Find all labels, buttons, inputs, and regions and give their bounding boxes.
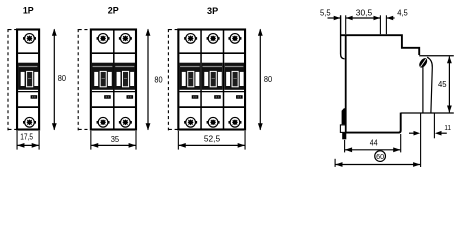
height dimension 80 for 1P [52,29,57,131]
terminal screw top 2P-1 [97,34,110,44]
svg-text:80: 80 [154,75,162,85]
terminal screw top 2P-2 [119,34,132,44]
width dimension 35 for 2P [91,131,136,150]
dimension 4.5 [387,16,395,21]
DIN rail clip lower tab [342,133,346,140]
toggle switch block pole 2P-2 [115,63,135,90]
terminal screw bottom 3P-3 [228,117,241,127]
terminal screw bottom 1P-1 [23,117,36,127]
terminal screw top 1P-1 [23,34,36,44]
indicator window pole 2P-2 [126,95,133,99]
dimension 5.5 (clip standoff) [328,16,341,21]
dashed adjacent module outline left of 2P [78,29,90,130]
DIN rail clip body [342,108,346,124]
indicator window pole 3P-1 [192,95,199,99]
dimension 11 [409,131,447,136]
side view inner front face line [422,67,424,114]
dashed adjacent module outline left of 1P [8,29,16,130]
side view bottom front step line (45 extension) [401,112,454,114]
terminal screw bottom 3P-1 [184,117,197,127]
terminal screw bottom 2P-1 [97,117,110,127]
dimension (60) overall depth [335,159,420,167]
width dimension 52,5 for 3P [178,131,245,150]
svg-text:52,5: 52,5 [204,134,221,144]
svg-text:80: 80 [58,73,66,83]
DIN rail clip pull tab [340,125,345,132]
svg-text:60: 60 [376,152,384,161]
3P pole divider line 2 [223,31,225,129]
dimension label (60) in circle [375,151,386,162]
dimension 30.5 [346,16,380,21]
extension lines for top dimensions [346,15,387,34]
2P breaker front view body [91,30,136,130]
svg-text:3P: 3P [207,5,218,16]
svg-text:1P: 1P [23,5,34,16]
svg-text:4,5: 4,5 [397,8,408,18]
1P breaker front view body [17,30,39,130]
terminal screw bottom 3P-2 [207,117,220,127]
svg-text:45: 45 [438,79,447,89]
extension line for 11/60 dimensions (front face) [420,113,422,167]
svg-text:11: 11 [444,123,451,132]
toggle handle (side view) [418,57,429,69]
side view outer front face curve [427,57,432,113]
terminal screw top 3P-1 [184,34,197,44]
3P breaker front view body [178,30,245,130]
svg-text:17,5: 17,5 [20,131,33,141]
indicator window pole 2P-1 [104,95,111,99]
svg-text:30,5: 30,5 [356,8,373,18]
svg-text:44: 44 [370,138,378,148]
indicator window pole 3P-3 [236,95,243,99]
svg-text:5,5: 5,5 [320,8,331,18]
svg-text:35: 35 [111,134,120,144]
dimension 45 (front height) [447,56,452,113]
DIN rail clip leg [341,15,345,59]
indicator window pole 3P-2 [214,95,221,99]
2P pole divider line 1 [113,31,115,129]
dimension 44 (body depth) [345,134,401,152]
dashed adjacent module outline left of 3P [168,29,177,130]
height dimension 80 for 2P [146,29,151,131]
terminal screw top 3P-3 [228,34,241,44]
svg-text:80: 80 [264,74,272,84]
extension line for 11 dimension (nose front) [433,113,435,138]
3P pole divider line 1 [200,31,202,129]
toggle switch block pole 3P-3 [224,63,244,90]
width dimension 17,5 for 1P [17,131,39,150]
side view body outline [341,35,420,133]
toggle switch block pole 2P-1 [92,63,113,90]
svg-text:2P: 2P [108,5,119,16]
side view front top step line (45 extension) [419,55,454,57]
toggle switch block pole 3P-2 [202,63,223,90]
toggle switch block pole 1P-1 [18,63,38,90]
toggle switch block pole 3P-1 [179,63,200,90]
terminal screw bottom 2P-2 [119,117,132,127]
indicator window pole 1P-1 [31,95,38,99]
height dimension 80 for 3P [258,29,263,131]
terminal screw top 3P-2 [207,34,220,44]
